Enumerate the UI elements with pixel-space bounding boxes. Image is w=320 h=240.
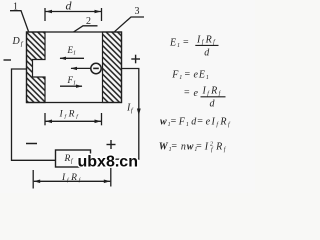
- svg-text:I2fRf: I2fRf: [204, 141, 227, 153]
- label D_f: [12, 36, 24, 48]
- lower dimension I_fR_f line: [34, 180, 111, 182]
- electron (circle with minus): [91, 63, 101, 73]
- upper dimension I_fR_f left tick: [44, 113, 46, 125]
- plus sign near anode: [131, 55, 140, 64]
- label 2: [86, 16, 91, 27]
- resistor R_f box: [56, 150, 91, 167]
- force arrow F1 (points right): [60, 85, 82, 87]
- equation (cont) = e IfRf / d: [184, 86, 226, 110]
- field arrow E1 (points left): [60, 57, 84, 59]
- minus sign left of tube: [4, 59, 12, 61]
- lower dimension I_fR_f right tick: [110, 168, 112, 187]
- field label E1: [67, 45, 77, 57]
- cathode wire to bottom left: [12, 69, 56, 160]
- cathode electrode (left, hatched bracket): [27, 32, 46, 103]
- force label F1: [67, 75, 77, 87]
- anode electrode (right, hatched): [103, 32, 122, 103]
- leader line for label 2: [74, 26, 98, 32]
- svg-text:d: d: [66, 0, 73, 12]
- dimension d left arrowhead: [46, 10, 53, 14]
- upper dimension I_fR_f right tick: [101, 113, 103, 125]
- dimension d right tick: [101, 8, 103, 21]
- current arrowhead on wire (down): [137, 109, 141, 116]
- lower dimension I_fR_f left tick: [32, 170, 34, 189]
- minus sign near resistor: [26, 143, 37, 145]
- dimension d left tick: [44, 8, 46, 21]
- label 3: [135, 6, 140, 17]
- svg-text:=: =: [197, 116, 204, 127]
- tube envelope: [27, 32, 122, 103]
- equation E1 = IfRf / d: [169, 34, 219, 58]
- svg-text:=: =: [183, 37, 190, 48]
- svg-text:=: =: [171, 141, 178, 152]
- svg-text:d: d: [204, 47, 210, 58]
- equation w1 = F1 d = e IfRf: [160, 116, 231, 128]
- anode wire to bottom right: [91, 69, 139, 160]
- electron velocity arrow (points left): [71, 67, 91, 69]
- equation W1 = nw1 = If^2 Rf: [159, 141, 227, 153]
- resistor label R_f: [64, 154, 74, 165]
- dimension d right arrowhead: [95, 10, 102, 14]
- equations: [159, 34, 231, 153]
- leader line for label 1: [10, 11, 29, 32]
- svg-text:=: =: [171, 116, 178, 127]
- svg-text:d: d: [210, 98, 216, 109]
- dimension d line: [46, 11, 102, 13]
- svg-text:e: e: [194, 88, 199, 99]
- svg-text:=: =: [196, 141, 203, 152]
- current label I_f: [126, 103, 134, 115]
- equation F1 = eE1: [171, 69, 210, 81]
- leader line for label 3: [115, 17, 145, 32]
- svg-text:ubx8.cn: ubx8.cn: [78, 154, 138, 171]
- lower dimension label I_fR_f: [61, 173, 82, 183]
- svg-text:=: =: [185, 69, 192, 80]
- label 1: [13, 2, 18, 13]
- svg-text:3: 3: [135, 6, 140, 17]
- plus sign near resistor: [107, 140, 116, 149]
- label d: [66, 0, 73, 12]
- upper dimension label I_fR_f: [59, 110, 80, 120]
- upper dimension I_fR_f line: [46, 120, 102, 122]
- svg-text:=: =: [184, 88, 191, 99]
